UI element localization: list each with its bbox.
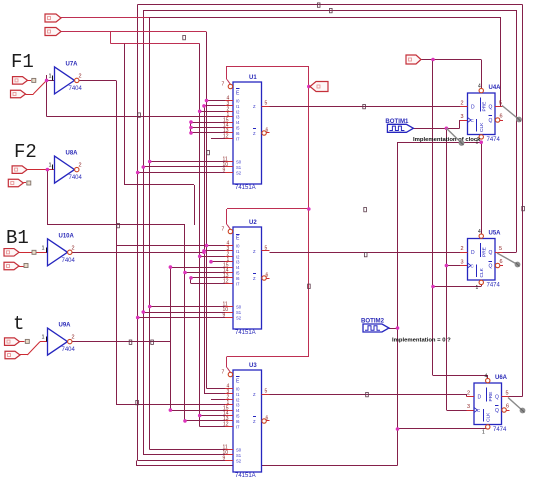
svg-text:Z: Z [253,392,256,397]
svg-text:1: 1 [49,163,52,169]
wire net t input [20,342,48,356]
wire mux input bundle U2 [191,262,226,284]
flip-flop U5A 7474 [460,229,503,291]
svg-text:7: 7 [222,82,225,88]
svg-text:C: C [477,408,480,413]
port F1a [13,77,36,85]
net label ticks [117,3,525,405]
svg-text:CLK: CLK [486,412,492,422]
svg-text:Q: Q [495,408,499,414]
flip-flop U4A 7474 [460,84,503,146]
svg-text:1: 1 [49,73,52,79]
wire net D3 (U3.Z to U6A.D) [270,394,467,397]
svg-text:PRE: PRE [482,102,488,112]
svg-text:S0: S0 [236,305,242,310]
port B1b [4,262,28,270]
port F1b [11,90,26,98]
junction dots net B1OUT [202,104,206,254]
wire net D1 (U1.Z to U4A.D) [270,105,461,108]
junction dot net TOUT [169,265,173,412]
svg-text:12: 12 [223,279,229,285]
svg-text:5: 5 [265,246,268,252]
svg-text:Q: Q [489,250,493,256]
multiplexer U1 74151A [222,75,270,191]
stimulus BOTIM1 [385,118,413,133]
svg-text:7404: 7404 [62,347,76,353]
junction dots bundle U3 [183,419,187,423]
svg-text:7404: 7404 [69,175,83,181]
junction dots bundle U1 [189,120,193,134]
port F2a [12,166,27,174]
svg-text:7: 7 [222,370,225,376]
svg-text:PRE: PRE [488,392,494,402]
svg-text:1: 1 [42,245,45,251]
svg-text:Q: Q [489,105,493,111]
wire net B1 input [19,252,48,254]
svg-text:D: D [471,250,475,256]
svg-text:7474: 7474 [493,427,507,433]
svg-text:2: 2 [461,101,464,107]
svg-text:Implementation of clock: Implementation of clock [413,137,481,143]
svg-text:U3: U3 [249,363,257,369]
svg-text:6: 6 [266,273,269,279]
junction dots net Q2S1 [142,165,146,314]
wire mux input bundle U1 [191,117,226,139]
svg-text:Z: Z [253,249,256,254]
junction dots net EN [307,85,311,211]
svg-text:6: 6 [506,404,509,410]
svg-text:F2: F2 [14,141,37,163]
junction dot net CLR chain [479,140,483,144]
wire net Q1S0 top rail (port T1) [61,18,501,450]
port tb [5,351,20,359]
flip-flop U6A 7474 [467,374,510,436]
inverter U9A [42,323,76,356]
svg-text:Z: Z [253,131,256,136]
svg-text:5: 5 [499,246,502,252]
wire net D2 (U2.Z to U5A.D) [270,252,461,254]
svg-text:1: 1 [42,335,45,341]
svg-text:Q: Q [495,395,499,401]
wire net TOUT (U9A output) [72,267,225,410]
junction dots net Q1S0 [148,160,152,309]
svg-text:S2: S2 [236,316,242,321]
svg-text:7474: 7474 [487,283,501,289]
svg-text:7: 7 [222,227,225,233]
inverter U10A [42,233,76,265]
junction dots net W43 [198,110,202,418]
svg-text:5: 5 [265,101,268,107]
svg-text:1: 1 [476,285,479,291]
svg-text:Q: Q [489,264,493,270]
junction dots net Q3S2 [136,171,140,320]
svg-text:6: 6 [500,259,503,265]
svg-text:7404: 7404 [69,86,83,92]
svg-text:U9A: U9A [59,323,72,329]
inverter U7A [49,61,83,94]
port ta [5,338,30,346]
svg-text:Z: Z [253,104,256,109]
svg-text:S0: S0 [236,448,242,453]
svg-text:2: 2 [467,391,470,397]
port P2 (top-left input port 2) [45,28,61,36]
svg-text:S2: S2 [236,459,242,464]
svg-text:B1: B1 [6,227,29,249]
junction dots bundle U2 [189,260,213,280]
wire net Q3S2 top rail [138,5,523,461]
junction dots net PRESET [431,58,435,289]
wire mux input bundle U3 [211,399,225,401]
probe marker on U6A.Q [508,398,525,414]
svg-text:S1: S1 [236,453,242,458]
stimulus BOTIM2 [361,318,389,333]
port P1 (top-left input port 1) [45,14,61,22]
svg-text:2: 2 [461,246,464,252]
junction dots net CLK [445,127,449,268]
svg-text:3: 3 [461,260,464,266]
svg-text:Q: Q [489,118,493,124]
wire net B1OUT (U10A output) [72,106,225,394]
port OUT (right of U1) [310,82,328,92]
wire net F1 input branch [26,75,226,117]
svg-text:6: 6 [266,416,269,422]
svg-text:D: D [478,395,482,401]
svg-text:7474: 7474 [487,137,501,143]
wire net Q2S1 top rail [143,10,516,455]
svg-text:2: 2 [72,335,75,341]
svg-text:Z: Z [253,276,256,281]
wire net CLR chain (U4A.CLR to U5A.PRE) [398,141,482,234]
svg-text:74151A: 74151A [235,330,256,336]
svg-text:7404: 7404 [62,258,76,264]
svg-text:U5A: U5A [489,231,502,237]
svg-text:4: 4 [478,84,481,90]
multiplexer U3 74151A [222,363,270,479]
svg-text:S1: S1 [236,310,242,315]
svg-text:U6A: U6A [495,375,508,381]
svg-text:Implementation = 0 ?: Implementation = 0 ? [392,338,451,344]
svg-text:CLK: CLK [479,267,485,277]
svg-text:2: 2 [79,163,82,169]
inverter U8A [49,151,83,184]
port PRE (above U4A) [406,55,421,64]
svg-text:CLK: CLK [479,122,485,132]
svg-text:12: 12 [223,422,229,428]
svg-text:3: 3 [467,404,470,410]
svg-text:U4A: U4A [489,85,502,91]
svg-text:12: 12 [223,134,229,140]
port F2b [8,179,31,187]
svg-text:5: 5 [265,389,268,395]
svg-text:74151A: 74151A [235,473,256,479]
svg-text:t: t [13,313,24,335]
wire net EN (port to U1.E, U2.E, U3.E enable chain) [227,66,309,372]
wire net F1OUT (U7A output) [79,80,225,404]
junction dots net BOTIM2 [396,326,400,431]
svg-text:6: 6 [500,114,503,120]
wire net CLK from BOTIM1 [413,120,466,411]
svg-text:5: 5 [499,101,502,107]
probe marker on BOTIM1 clock wire [446,128,464,146]
svg-text:9: 9 [223,456,226,462]
svg-text:2: 2 [79,73,82,79]
junction dot net F2 [46,168,187,275]
svg-text:U2: U2 [249,220,257,226]
svg-text:S0: S0 [236,160,242,165]
multiplexer U2 74151A [222,220,270,336]
svg-text:4: 4 [485,374,488,380]
svg-text:9: 9 [223,168,226,174]
svg-text:C: C [471,264,474,269]
wire net T2 (top-left port 2 feed) [61,32,225,389]
port B1a [4,249,36,256]
svg-text:74151A: 74151A [235,185,256,191]
svg-text:C: C [471,118,474,123]
svg-text:D: D [471,105,475,111]
svg-text:6: 6 [266,128,269,134]
wire net PRESET (port above U4A to PRE pins) [421,60,488,379]
svg-text:3: 3 [461,114,464,120]
junction dot net F1 [45,79,49,83]
svg-text:9: 9 [223,313,226,319]
probe marker on U4A.Q [502,106,522,123]
svg-text:S1: S1 [236,165,242,170]
svg-text:5: 5 [506,391,509,397]
wire net F2 input branch [27,170,225,421]
svg-text:Z: Z [253,419,256,424]
svg-text:U1: U1 [249,75,257,81]
probe marker on U5A.Q [497,253,520,267]
svg-text:F1: F1 [11,51,34,73]
svg-text:S2: S2 [236,171,242,176]
svg-text:U7A: U7A [66,61,79,67]
svg-text:4: 4 [478,229,481,235]
svg-text:PRE: PRE [482,247,488,257]
wire net W43 (input distribution) [200,43,226,426]
svg-text:U10A: U10A [59,233,75,239]
svg-text:1: 1 [482,430,485,436]
svg-text:U8A: U8A [66,151,79,157]
wire net BOTIM2 reset chain [136,142,488,465]
svg-text:2: 2 [72,245,75,251]
junction dots net T2 [205,99,209,248]
